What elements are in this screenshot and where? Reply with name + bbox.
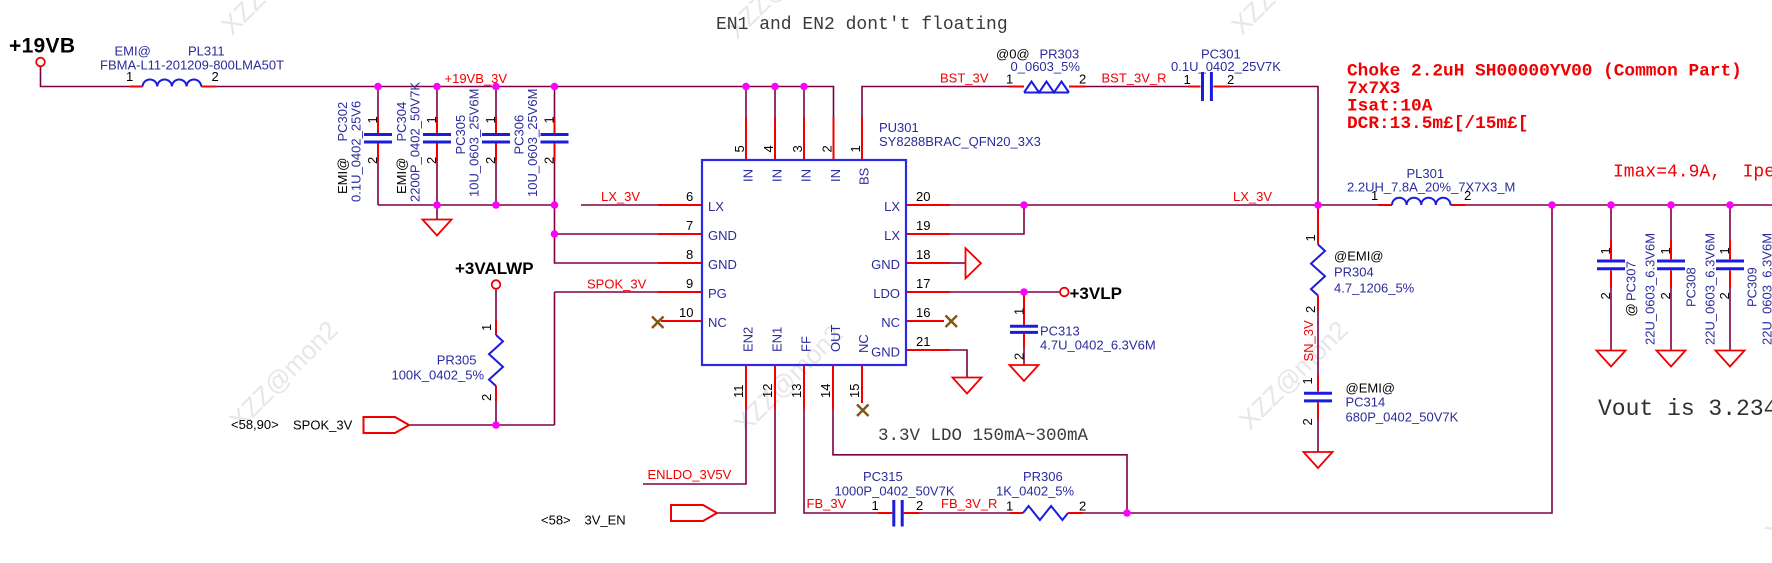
svg-text:GND: GND	[708, 228, 737, 243]
wire +19VB_3V bus from PL311 to IC pin2	[216, 87, 834, 118]
svg-text:@EMI@: @EMI@	[1334, 249, 1384, 264]
PC308 pin stubs	[1670, 240, 1672, 288]
wire IN pin4 drop	[774, 87, 776, 118]
svg-text:2: 2	[365, 157, 380, 164]
svg-text:IN: IN	[799, 169, 814, 182]
pin 16 stub	[906, 320, 944, 322]
svg-text:20: 20	[916, 189, 930, 204]
svg-text:1: 1	[1658, 247, 1673, 254]
svg-text:Imax=4.9A, Ipeak: Imax=4.9A, Ipeak	[1613, 163, 1772, 183]
wire SN_3V between PR304 and PC314	[1317, 310, 1319, 375]
wire PC306 top drop	[554, 87, 556, 118]
svg-text:+3VALWP: +3VALWP	[455, 259, 534, 278]
svg-text:SPOK_3V: SPOK_3V	[293, 418, 353, 433]
svg-text:0_0603_5%: 0_0603_5%	[1011, 59, 1081, 74]
svg-text:SY8288BRAC_QFN20_3X3: SY8288BRAC_QFN20_3X3	[879, 134, 1041, 149]
wire PC309 drops	[1729, 205, 1731, 351]
ground PC307	[1597, 351, 1626, 367]
pin 2 stub	[833, 117, 835, 160]
node dot LX pin19	[1020, 201, 1028, 209]
wire IN pin3 drop	[803, 87, 805, 118]
node dot LX PC308	[1667, 201, 1675, 209]
wire PC305 bottom to gnd rail	[495, 161, 497, 205]
svg-text:OUT: OUT	[828, 325, 843, 353]
node dot LX feedback	[1548, 201, 1556, 209]
capacitor PC315	[894, 500, 902, 527]
node dot bus pin5	[742, 83, 750, 91]
svg-text:PC308: PC308	[1684, 267, 1699, 307]
svg-text:1: 1	[542, 116, 557, 123]
capacitor PC305	[482, 135, 510, 143]
svg-text:PL311: PL311	[188, 44, 225, 59]
svg-text:NC: NC	[881, 315, 900, 330]
wire PC304 top drop	[436, 87, 438, 118]
node dot rail x496	[492, 201, 500, 209]
PC307 pin stubs	[1610, 240, 1612, 288]
svg-text:+19VB: +19VB	[9, 35, 75, 58]
pin 4 stub	[774, 117, 776, 160]
pin 11 stub	[745, 365, 747, 409]
svg-text:2: 2	[1658, 292, 1673, 299]
PR305 pin stubs	[495, 320, 497, 401]
inductor PL311	[143, 79, 202, 86]
svg-text:@: @	[1624, 303, 1639, 316]
wire pin21 to ground	[950, 350, 967, 378]
PC305 pin stubs	[495, 118, 497, 162]
svg-text:12: 12	[760, 384, 775, 398]
svg-text:XZZ@mon2: XZZ@mon2	[1233, 315, 1354, 436]
pin 13 stub	[803, 365, 805, 409]
svg-text:PC309: PC309	[1745, 267, 1760, 307]
wire FB_3V_R between PC315 and PR306	[919, 512, 1010, 514]
svg-text:4.7_1206_5%: 4.7_1206_5%	[1334, 281, 1415, 296]
svg-text:2: 2	[424, 157, 439, 164]
pin 3 stub	[803, 117, 805, 160]
capacitor PC313	[1010, 326, 1038, 332]
svg-text:BS: BS	[857, 167, 872, 185]
ground arrow pin18	[966, 248, 982, 278]
ground below cap rail	[423, 220, 452, 236]
PC306 pin stubs	[554, 118, 556, 162]
pin 20 stub	[906, 204, 950, 206]
resistor PR304	[1311, 245, 1325, 296]
wire FF pin13 to FB_3V	[804, 409, 878, 513]
svg-text:PC307: PC307	[1624, 261, 1639, 301]
node dot bus x496	[492, 83, 500, 91]
svg-text:1: 1	[1006, 72, 1013, 87]
wire PC305 top drop	[495, 87, 497, 118]
svg-text:1: 1	[1371, 188, 1378, 203]
PC301 pin stubs	[1189, 86, 1231, 88]
PC309 pin stubs	[1729, 240, 1731, 288]
node dot SPOK rail	[492, 421, 500, 429]
svg-text:PU301: PU301	[879, 120, 919, 135]
PL311 pin stubs	[130, 86, 216, 88]
svg-text:XZZ@mon2: XZZ@mon2	[1759, 426, 1772, 547]
svg-text:FF: FF	[799, 336, 814, 352]
wire OUT pin14 feedback loop	[833, 409, 1127, 513]
off-page connector 3V_EN	[671, 505, 717, 521]
terminal circle +3VLP	[1060, 288, 1069, 297]
wire 3V_EN to pin12	[717, 409, 775, 513]
svg-text:2: 2	[1717, 292, 1732, 299]
ground PC309	[1716, 351, 1745, 367]
resistor PR305	[489, 335, 503, 386]
svg-text:19: 19	[916, 218, 930, 233]
pin 15 stub	[861, 365, 863, 403]
wire PR305 bottom link	[495, 289, 497, 425]
capacitor PC309	[1716, 261, 1744, 269]
svg-text:NC: NC	[708, 315, 727, 330]
PC302 pin stubs	[377, 118, 379, 162]
svg-text:3: 3	[790, 145, 805, 152]
svg-text:LX: LX	[884, 228, 900, 243]
svg-text:IN: IN	[741, 169, 756, 182]
wire ENLDO_3V5V to pin11	[643, 409, 746, 484]
svg-text:<58,90>: <58,90>	[231, 417, 279, 432]
svg-text:BST_3V_R: BST_3V_R	[1102, 71, 1167, 86]
svg-text:ENLDO_3V5V: ENLDO_3V5V	[648, 467, 732, 482]
svg-text:PC315: PC315	[863, 469, 903, 484]
svg-text:6: 6	[686, 189, 693, 204]
wire PC308 drops	[1670, 205, 1672, 351]
node dot LX snubber	[1314, 201, 1322, 209]
wire PC304 bottom to gnd rail	[436, 161, 438, 205]
svg-text:5: 5	[732, 145, 747, 152]
pin 19 stub	[906, 233, 950, 235]
svg-text:PR306: PR306	[1023, 469, 1063, 484]
svg-text:Vout is 3.234: Vout is 3.234	[1598, 396, 1772, 422]
svg-text:10U_0603_25V6M: 10U_0603_25V6M	[525, 89, 540, 197]
wire PC302 bottom to gnd rail	[377, 161, 379, 205]
svg-text:GND: GND	[871, 257, 900, 272]
svg-text:1: 1	[1006, 499, 1013, 514]
pin 1 stub	[861, 117, 863, 160]
terminal circle +19VB	[36, 58, 45, 67]
svg-text:2: 2	[483, 157, 498, 164]
svg-text:2: 2	[1300, 418, 1315, 425]
wire gnd stem below rail	[436, 205, 438, 220]
wire LDO pin17 to +3VLP	[950, 291, 1060, 293]
svg-text:2: 2	[1303, 306, 1318, 313]
svg-text:8: 8	[686, 247, 693, 262]
svg-text:1: 1	[126, 69, 133, 84]
svg-text:1: 1	[1303, 234, 1318, 241]
node dot FB junction	[1123, 509, 1131, 517]
pin 18 stub	[906, 262, 950, 264]
svg-text:LX: LX	[884, 199, 900, 214]
wire gnd rail under caps	[378, 204, 555, 206]
svg-text:1: 1	[483, 116, 498, 123]
svg-text:10U_0603_25V6M: 10U_0603_25V6M	[467, 89, 482, 197]
pin 14 stub	[832, 365, 834, 409]
svg-text:680P_0402_50V7K: 680P_0402_50V7K	[1346, 410, 1459, 425]
no-connect X pin10	[652, 317, 664, 329]
svg-text:IN: IN	[770, 169, 785, 182]
svg-text:2: 2	[1598, 292, 1613, 299]
pin 17 stub	[906, 291, 950, 293]
svg-text:2: 2	[1079, 72, 1086, 87]
svg-text:17: 17	[916, 276, 930, 291]
off-page connector SPOK_3V	[364, 417, 410, 433]
svg-text:1: 1	[1300, 377, 1315, 384]
node dot LX PC309	[1726, 201, 1734, 209]
svg-text:2: 2	[1227, 72, 1234, 87]
node dot bus x554	[551, 83, 559, 91]
svg-text:1: 1	[479, 324, 494, 331]
capacitor PC304	[423, 135, 451, 143]
wire pin19 join to LX	[950, 205, 1024, 234]
PR304 pin stubs	[1317, 205, 1319, 310]
svg-text:IN: IN	[828, 169, 843, 182]
svg-text:LX_3V: LX_3V	[601, 189, 640, 204]
PL301 pin stubs	[1378, 204, 1465, 206]
pin 12 stub	[774, 365, 776, 409]
terminal circle +3VALWP	[492, 280, 501, 289]
wire LX_3V stub at pin6	[581, 204, 658, 206]
wire pin18 to gnd arrow	[950, 262, 966, 264]
PC314 pin stubs	[1317, 375, 1319, 420]
svg-text:2: 2	[479, 394, 494, 401]
node dot rail x554	[551, 201, 559, 209]
svg-text:13: 13	[789, 384, 804, 398]
wire IN pin5 drop	[745, 87, 747, 118]
pin 9 stub	[658, 291, 702, 293]
PC315 pin stubs	[878, 512, 919, 514]
wire BST_3V_R from PR303 to PC301	[1085, 86, 1189, 88]
svg-text:Choke 2.2uH SH00000YV00 (Commo: Choke 2.2uH SH00000YV00 (Common Part)	[1347, 62, 1742, 82]
ground pin21	[953, 378, 982, 394]
node dot pin7 branch	[551, 230, 559, 238]
svg-text:1K_0402_5%: 1K_0402_5%	[996, 484, 1075, 499]
resistor PR303	[1024, 82, 1069, 93]
svg-text:PC313: PC313	[1040, 324, 1080, 339]
no-connect X pin15	[857, 405, 869, 417]
svg-text:22U_0603_6.3V6M: 22U_0603_6.3V6M	[1703, 233, 1718, 345]
svg-text:1: 1	[872, 498, 879, 513]
capacitor PC301	[1203, 72, 1212, 101]
svg-text:LDO: LDO	[873, 286, 900, 301]
PC313 pin stubs	[1023, 292, 1025, 347]
svg-text:1: 1	[1184, 72, 1191, 87]
svg-text:2: 2	[1464, 188, 1471, 203]
svg-text:LX_3V: LX_3V	[1233, 189, 1272, 204]
svg-text:3V_EN: 3V_EN	[585, 513, 626, 528]
PC304 pin stubs	[436, 118, 438, 162]
capacitor PC307	[1597, 261, 1625, 269]
svg-text:EN2: EN2	[741, 327, 756, 352]
svg-text:BST_3V: BST_3V	[940, 71, 989, 86]
svg-text:22U_0603_6.3V6M: 22U_0603_6.3V6M	[1760, 233, 1772, 345]
svg-text:2200P_0402_50V7K: 2200P_0402_50V7K	[408, 82, 423, 202]
node dot bus pin4	[771, 83, 779, 91]
svg-text:PR305: PR305	[437, 353, 477, 368]
svg-text:1: 1	[1012, 308, 1027, 315]
node dot bus pin3	[800, 83, 808, 91]
svg-text:2: 2	[1012, 353, 1027, 360]
wire branch to pin7	[555, 233, 659, 235]
capacitor PC302	[364, 135, 392, 143]
wire +19VB terminal drop	[41, 66, 131, 86]
node dot bus x437	[433, 83, 441, 91]
pin 8 stub	[658, 262, 702, 264]
svg-text:<58>: <58>	[541, 513, 571, 528]
ground PC308	[1657, 351, 1686, 367]
svg-text:16: 16	[916, 305, 930, 320]
svg-text:2: 2	[1079, 499, 1086, 514]
pin 10 stub	[661, 320, 702, 322]
wire PC306 bottom through rail to pins 7,8	[555, 161, 659, 263]
svg-text:PR304: PR304	[1334, 265, 1374, 280]
svg-text:NC: NC	[856, 334, 871, 353]
capacitor PC314	[1304, 393, 1332, 401]
svg-text:1: 1	[1598, 247, 1613, 254]
svg-text:100K_0402_5%: 100K_0402_5%	[391, 368, 484, 383]
svg-text:LX: LX	[708, 199, 724, 214]
node dot rail x437	[433, 201, 441, 209]
svg-text:EMI@: EMI@	[115, 44, 151, 59]
svg-text:+19VB_3V: +19VB_3V	[445, 71, 508, 86]
svg-text:10: 10	[679, 305, 693, 320]
PR306 pin stubs	[1010, 512, 1083, 514]
wire PC314 to ground	[1317, 420, 1319, 452]
svg-text:GND: GND	[708, 257, 737, 272]
svg-text:4: 4	[761, 145, 776, 152]
svg-text:DCR:13.5m£[/15m£[: DCR:13.5m£[/15m£[	[1347, 114, 1528, 134]
svg-text:1: 1	[424, 116, 439, 123]
wire PC302 top drop	[377, 87, 379, 118]
svg-text:2: 2	[542, 157, 557, 164]
svg-text:XZZ@mon2: XZZ@mon2	[215, 0, 336, 40]
wire SPOK_3V run	[409, 292, 658, 425]
op-amp U1 PU301 IC body	[702, 160, 906, 365]
svg-text:SPOK_3V: SPOK_3V	[587, 277, 647, 292]
ground PC314	[1304, 452, 1333, 468]
svg-text:EN1 and EN2 dont't floating: EN1 and EN2 dont't floating	[716, 15, 1008, 35]
wire from PC301 down to LX node	[1230, 87, 1318, 206]
svg-text:1: 1	[365, 116, 380, 123]
pin 5 stub	[745, 117, 747, 160]
svg-text:2: 2	[820, 145, 835, 152]
svg-text:@EMI@: @EMI@	[1346, 381, 1396, 396]
no-connect X pin16	[946, 316, 958, 328]
svg-text:EN1: EN1	[770, 327, 785, 352]
svg-text:SN_3V: SN_3V	[1301, 320, 1316, 362]
wire PC313 bottom link	[1023, 347, 1025, 365]
svg-text:GND: GND	[871, 345, 900, 360]
svg-text:PC314: PC314	[1346, 395, 1386, 410]
node dot LDO PC313	[1020, 288, 1028, 296]
resistor PR306	[1023, 506, 1068, 520]
pin 21 stub	[906, 349, 950, 351]
pin 6 stub	[658, 204, 702, 206]
svg-text:2: 2	[916, 498, 923, 513]
PR303 pin stubs	[1009, 86, 1085, 88]
svg-text:21: 21	[916, 334, 930, 349]
svg-text:18: 18	[916, 247, 930, 262]
svg-text:9: 9	[686, 276, 693, 291]
svg-text:0.1U_0402_25V6: 0.1U_0402_25V6	[349, 101, 364, 202]
svg-text:11: 11	[731, 385, 746, 399]
svg-text:XZZ@mon2: XZZ@mon2	[1225, 0, 1346, 40]
svg-text:1: 1	[1717, 247, 1732, 254]
ground PC313	[1010, 365, 1039, 381]
svg-text:PG: PG	[708, 286, 727, 301]
wire PC307 drops	[1610, 205, 1612, 351]
svg-text:+3VLP: +3VLP	[1070, 284, 1122, 303]
inductor PL301	[1392, 198, 1450, 205]
svg-text:4.7U_0402_6.3V6M: 4.7U_0402_6.3V6M	[1040, 338, 1156, 353]
capacitor PC306	[541, 135, 569, 143]
node dot LX PC307	[1607, 201, 1615, 209]
svg-text:1: 1	[848, 145, 863, 152]
wire FB node to output	[1083, 205, 1552, 513]
svg-text:1000P_0402_50V7K: 1000P_0402_50V7K	[835, 484, 955, 499]
svg-text:15: 15	[847, 384, 862, 398]
wire LX_3V output line	[950, 204, 1772, 206]
svg-text:2: 2	[212, 69, 219, 84]
svg-text:22U_0603_6.3V6M: 22U_0603_6.3V6M	[1643, 233, 1658, 345]
svg-text:3.3V LDO 150mA~300mA: 3.3V LDO 150mA~300mA	[878, 426, 1089, 446]
wire BST_3V from pin1 to PR303	[862, 87, 1009, 118]
svg-text:7: 7	[686, 218, 693, 233]
svg-text:14: 14	[818, 384, 833, 398]
node dot bus x378	[374, 83, 382, 91]
capacitor PC308	[1657, 261, 1685, 269]
pin 7 stub	[658, 233, 702, 235]
